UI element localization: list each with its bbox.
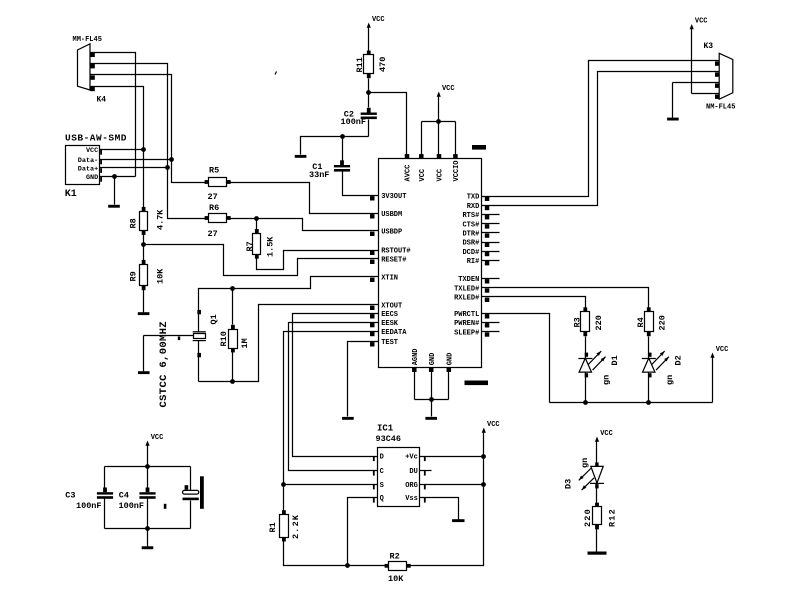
svg-text:100nF: 100nF [119, 501, 145, 511]
svg-text:VCC: VCC [437, 169, 445, 182]
svg-text:R9: R9 [129, 271, 139, 281]
svg-text:C4: C4 [119, 491, 129, 501]
svg-text:CSTCC 6,00MHZ: CSTCC 6,00MHZ [158, 321, 170, 407]
svg-text:K3: K3 [704, 42, 714, 51]
svg-text:RI#: RI# [467, 258, 480, 266]
svg-text:DSR#: DSR# [462, 240, 479, 248]
svg-text:VCC: VCC [442, 85, 455, 93]
svg-text:100nF: 100nF [341, 117, 367, 127]
svg-text:AGND: AGND [412, 348, 420, 365]
svg-text:2.2K: 2.2K [291, 514, 301, 539]
svg-text:IC1: IC1 [377, 424, 394, 434]
svg-text:93C46: 93C46 [376, 434, 402, 444]
svg-text:RTS#: RTS# [462, 212, 479, 220]
svg-text:VCC: VCC [419, 169, 427, 182]
svg-text:Q: Q [380, 495, 384, 503]
svg-text:R11: R11 [355, 57, 365, 72]
svg-text:USBDP: USBDP [381, 229, 402, 237]
svg-text:Data-: Data- [78, 157, 98, 165]
svg-text:470: 470 [378, 57, 388, 72]
svg-text:DU: DU [409, 468, 417, 476]
svg-text:D1: D1 [610, 355, 620, 365]
svg-text:33nF: 33nF [309, 170, 329, 180]
svg-text:AVCC: AVCC [405, 165, 413, 182]
svg-text:MM-FL45: MM-FL45 [73, 36, 102, 44]
svg-text:R8: R8 [129, 218, 139, 228]
svg-text:VCC: VCC [151, 434, 164, 442]
svg-text:100nF: 100nF [76, 501, 102, 511]
svg-text:TXDEN: TXDEN [458, 276, 479, 284]
svg-text:27: 27 [208, 192, 218, 202]
svg-text:DCD#: DCD# [462, 249, 479, 257]
svg-text:TXD: TXD [467, 194, 480, 202]
svg-text:10K: 10K [156, 268, 166, 284]
svg-text:3V3OUT: 3V3OUT [381, 193, 406, 201]
svg-text:R3: R3 [572, 317, 582, 327]
svg-text:ORG: ORG [405, 482, 418, 490]
svg-text:Data+: Data+ [78, 165, 98, 173]
svg-text:EECS: EECS [381, 311, 398, 319]
svg-text:220: 220 [583, 508, 593, 527]
svg-text:D2: D2 [673, 355, 683, 365]
svg-text:C: C [380, 468, 384, 476]
svg-text:K1: K1 [65, 189, 77, 200]
svg-text:DTR#: DTR# [462, 231, 479, 239]
svg-text:TXLED#: TXLED# [454, 285, 479, 293]
svg-text:CTS#: CTS# [462, 221, 479, 229]
svg-text:VCC: VCC [600, 430, 613, 438]
svg-text:GND: GND [447, 353, 455, 366]
svg-text:RESET#: RESET# [381, 257, 406, 265]
svg-text:GND: GND [86, 174, 98, 182]
svg-text:USB-AW-SMD: USB-AW-SMD [65, 132, 127, 143]
svg-text:VCC: VCC [487, 421, 500, 429]
svg-text:gn: gn [665, 375, 675, 385]
svg-text:S: S [380, 482, 384, 490]
svg-text:gn: gn [602, 375, 612, 385]
svg-text:R1: R1 [268, 522, 278, 532]
svg-text:C3: C3 [65, 491, 75, 501]
svg-text:NM-FL45: NM-FL45 [706, 104, 735, 112]
svg-text:R5: R5 [209, 166, 219, 176]
svg-text:Vss: Vss [405, 495, 418, 503]
svg-text:220: 220 [594, 315, 604, 330]
svg-text:VCC: VCC [372, 16, 385, 24]
svg-text:+Vc: +Vc [405, 454, 418, 462]
svg-text:VCCIO: VCCIO [453, 160, 461, 181]
svg-text:220: 220 [658, 315, 668, 330]
svg-text:RXD: RXD [467, 203, 480, 211]
svg-text:GND: GND [429, 353, 437, 366]
svg-text:R6: R6 [209, 203, 219, 213]
svg-text:PWRCTL: PWRCTL [454, 311, 479, 319]
svg-text:Q1: Q1 [209, 314, 219, 324]
svg-text:4.7K: 4.7K [156, 209, 166, 230]
svg-text:VCC: VCC [716, 346, 729, 354]
svg-text:TEST: TEST [381, 339, 398, 347]
svg-text:gn: gn [580, 458, 590, 468]
svg-text:R12: R12 [608, 508, 618, 527]
svg-text:EEDATA: EEDATA [381, 329, 407, 337]
svg-text:D: D [380, 454, 384, 462]
svg-text:R10: R10 [219, 331, 229, 346]
svg-text:1.5K: 1.5K [266, 236, 276, 257]
svg-text:R4: R4 [636, 317, 646, 327]
svg-text:VCC: VCC [86, 147, 98, 155]
svg-text:R2: R2 [390, 551, 400, 561]
svg-text:1M: 1M [240, 338, 250, 348]
svg-text:USBDM: USBDM [381, 211, 402, 219]
svg-text:K4: K4 [97, 95, 107, 104]
svg-text:EESK: EESK [381, 320, 399, 328]
svg-text:R7: R7 [245, 241, 255, 251]
svg-text:10K: 10K [388, 574, 404, 584]
svg-text:XTOUT: XTOUT [381, 303, 402, 311]
svg-text:D3: D3 [564, 479, 574, 489]
svg-text:27: 27 [208, 229, 218, 239]
svg-text:PWREN#: PWREN# [454, 320, 479, 328]
svg-text:RSTOUT#: RSTOUT# [381, 248, 410, 256]
svg-text:VCC: VCC [695, 18, 708, 26]
svg-text:RXLED#: RXLED# [454, 295, 479, 303]
svg-text:XTIN: XTIN [381, 275, 398, 283]
svg-text:SLEEP#: SLEEP# [454, 329, 479, 337]
